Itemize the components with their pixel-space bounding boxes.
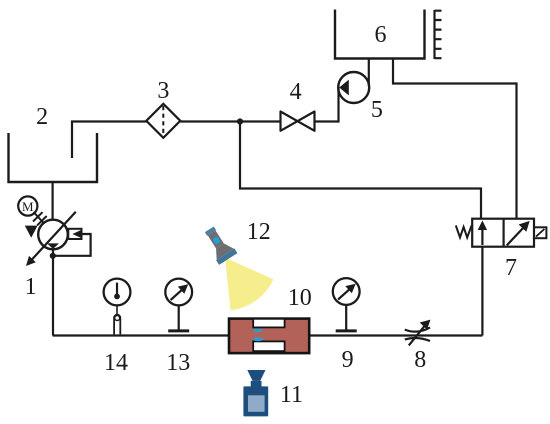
svg-text:4: 4 xyxy=(290,79,302,105)
light beam of lamp 12 xyxy=(225,258,273,311)
pressure compensator box on pump xyxy=(68,229,81,239)
specimen 10 (test section with crack) xyxy=(229,319,309,354)
pressure gauge 9 xyxy=(333,278,360,305)
valve 7 left position: straight-through arrow up xyxy=(481,228,483,245)
svg-text:6: 6 xyxy=(375,22,387,48)
wire: pump outlet down to bottom rail xyxy=(52,249,54,336)
valve 7 right position: oblique arrow xyxy=(507,226,525,245)
svg-text:13: 13 xyxy=(166,350,190,376)
lamp 12 (flashlight) xyxy=(200,223,237,264)
heater fins beside tank 6 xyxy=(435,10,442,59)
wire: junction A to valve 4 xyxy=(240,120,281,122)
wire: bottom rail xyxy=(53,334,483,336)
shaft coupling between motor and pump xyxy=(34,212,46,225)
valve 4 (shut-off valve, bowtie) xyxy=(281,112,315,131)
svg-text:M: M xyxy=(22,199,34,214)
svg-text:1: 1 xyxy=(25,274,37,300)
svg-text:8: 8 xyxy=(414,347,426,373)
svg-text:11: 11 xyxy=(280,382,303,408)
svg-text:3: 3 xyxy=(157,78,169,104)
camera 11 xyxy=(243,370,268,416)
wire: compensator feedback loop to pump outlet xyxy=(53,234,91,256)
shaft direction arrow (filled, pointing down) xyxy=(25,226,38,238)
thermometer 14 xyxy=(104,279,131,306)
wire: pump suction from tank 2 xyxy=(51,182,53,220)
svg-text:9: 9 xyxy=(342,347,354,373)
svg-text:7: 7 xyxy=(505,255,517,281)
valve 7 solenoid box xyxy=(534,227,546,238)
node A (junction dot below filter line) xyxy=(237,118,243,124)
filter 3 (diamond with dashed element) xyxy=(146,104,180,138)
wire: check valve 5 up to tank 6 xyxy=(368,59,370,87)
svg-text:14: 14 xyxy=(104,350,128,376)
node B (junction dot on pump outlet) xyxy=(50,253,56,259)
svg-text:5: 5 xyxy=(371,97,383,123)
svg-text:2: 2 xyxy=(36,104,48,130)
svg-text:10: 10 xyxy=(288,285,312,311)
directional valve 7 body (2-position) xyxy=(472,219,534,247)
pressure gauge 13 xyxy=(165,279,192,306)
motor M1 (electric motor circle) xyxy=(18,196,37,215)
wire: tank 6 outlet to valve 7 (right route) xyxy=(393,59,517,219)
wire: junction A down and across to valve 7 (left route) xyxy=(240,122,481,219)
tank 2 (reservoir, open top) xyxy=(9,133,98,182)
pump P1 (variable displacement pump circle) xyxy=(38,220,68,250)
check valve 5 (circle with seat triangle) xyxy=(338,72,369,103)
crack faces (blue) xyxy=(253,329,263,332)
tank 6 (upper reservoir, open top) xyxy=(335,10,425,59)
svg-text:12: 12 xyxy=(247,219,271,245)
wire: valve 4 up to check valve 5 xyxy=(315,88,339,122)
wire: return pipe into tank 2 and line to filter xyxy=(72,122,147,159)
wire: valve 7 output down to bottom rail xyxy=(481,247,483,336)
wire: filter to junction A xyxy=(180,120,240,122)
pump outlet triangle (flow down) xyxy=(47,243,59,249)
throttle valve 8 xyxy=(405,327,430,331)
variable displacement arrow through pump xyxy=(31,212,76,261)
valve 7 spring (W) xyxy=(456,226,472,238)
